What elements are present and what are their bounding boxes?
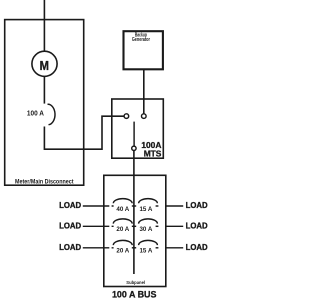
generator: Backup Generator box [124, 31, 163, 69]
wire: branch lead right row 2 [156, 225, 159, 227]
svg-text:LOAD: LOAD [186, 200, 208, 210]
switch blade: MTS [133, 122, 135, 147]
wire: branch lead left row 1 [104, 205, 114, 207]
wire: branch lead right row 3 [156, 247, 159, 249]
svg-text:15 A: 15 A [139, 248, 152, 255]
wire: main breaker to MTS utility terminal [44, 116, 124, 149]
svg-text:Meter/Main Disconnect: Meter/Main Disconnect [15, 180, 74, 186]
label 100A MTS [141, 140, 161, 158]
enclosure: Meter/Main Disconnect box [5, 20, 84, 186]
label Backup Generator [132, 32, 150, 43]
svg-text:20 A: 20 A [116, 248, 129, 255]
enclosure: 100A MTS box [112, 99, 164, 158]
svg-text:15 A: 15 A [139, 206, 152, 213]
wire: MTS load terminal to subpanel bus [133, 151, 135, 275]
wire: right load conductor row 1 [166, 205, 183, 207]
breaker 40 A [113, 199, 132, 204]
breaker: 100 A main disconnect [48, 104, 56, 124]
svg-text:40 A: 40 A [116, 206, 129, 213]
wire: left load conductor row 3 [83, 247, 104, 249]
meter M [32, 51, 57, 76]
wire: branch lead left row 2 [104, 225, 114, 227]
wire: branch lead right row 1 [156, 205, 159, 207]
svg-text:Subpanel: Subpanel [126, 280, 145, 286]
wire: meter to main breaker [43, 76, 45, 103]
svg-text:Generator: Generator [132, 37, 150, 43]
breaker 20 A (row 3) [113, 240, 132, 245]
svg-text:LOAD: LOAD [59, 221, 81, 231]
breaker 30 A [139, 219, 158, 224]
breaker 15 A (row 3) [139, 240, 158, 245]
node: MTS generator terminal [142, 114, 147, 119]
svg-text:LOAD: LOAD [186, 242, 208, 252]
svg-text:100 A BUS: 100 A BUS [112, 288, 157, 299]
svg-text:LOAD: LOAD [59, 200, 81, 210]
breaker 15 A [139, 199, 158, 204]
wire: branch lead left row 3 [104, 247, 114, 249]
svg-text:MTS: MTS [144, 148, 162, 158]
svg-text:LOAD: LOAD [186, 221, 208, 231]
wire: right load conductor row 3 [166, 247, 183, 249]
svg-text:30 A: 30 A [139, 226, 152, 233]
wire: bus tap row 3 [132, 247, 136, 249]
svg-text:100 A: 100 A [27, 108, 45, 117]
wire: bus tap row 1 [132, 205, 136, 207]
node: MTS load terminal [132, 146, 136, 150]
wire: left load conductor row 2 [83, 225, 104, 227]
svg-text:M: M [40, 58, 49, 73]
wire: utility service feed [43, 0, 45, 51]
node: MTS utility terminal [124, 114, 129, 119]
enclosure: Subpanel box [104, 175, 166, 286]
breaker 20 A [113, 219, 132, 224]
svg-text:LOAD: LOAD [59, 242, 81, 252]
svg-text:20 A: 20 A [116, 226, 129, 233]
wire: left load conductor row 1 [83, 205, 104, 207]
wire: bus tap row 2 [132, 225, 136, 227]
wire: generator to MTS generator terminal [143, 69, 145, 114]
wire: right load conductor row 2 [166, 225, 183, 227]
